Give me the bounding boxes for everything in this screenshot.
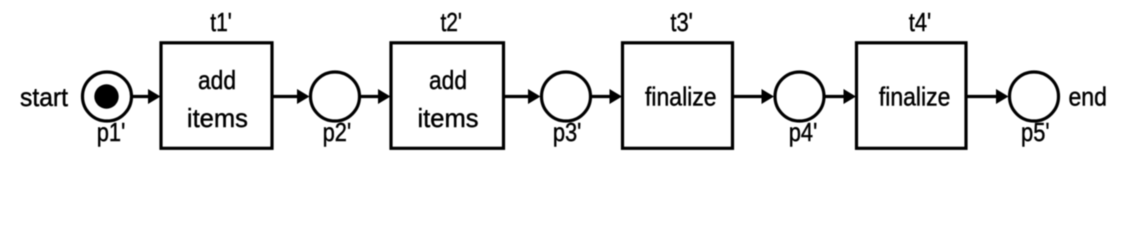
svg-text:add: add xyxy=(429,65,467,95)
svg-text:add: add xyxy=(198,65,236,95)
svg-text:p5': p5' xyxy=(1021,117,1050,147)
svg-text:p4': p4' xyxy=(789,117,818,147)
svg-text:finalize: finalize xyxy=(645,82,717,112)
svg-text:t4': t4' xyxy=(909,7,932,37)
svg-text:p1': p1' xyxy=(97,117,126,147)
svg-text:finalize: finalize xyxy=(879,82,951,112)
svg-text:t1': t1' xyxy=(210,7,232,37)
svg-text:items: items xyxy=(187,103,248,133)
svg-text:p2': p2' xyxy=(323,117,352,147)
svg-text:t2': t2' xyxy=(440,7,462,37)
svg-text:t3': t3' xyxy=(670,7,693,37)
svg-text:start: start xyxy=(20,82,69,112)
svg-text:p3': p3' xyxy=(553,117,582,147)
svg-text:end: end xyxy=(1068,82,1107,112)
svg-text:items: items xyxy=(418,103,479,133)
